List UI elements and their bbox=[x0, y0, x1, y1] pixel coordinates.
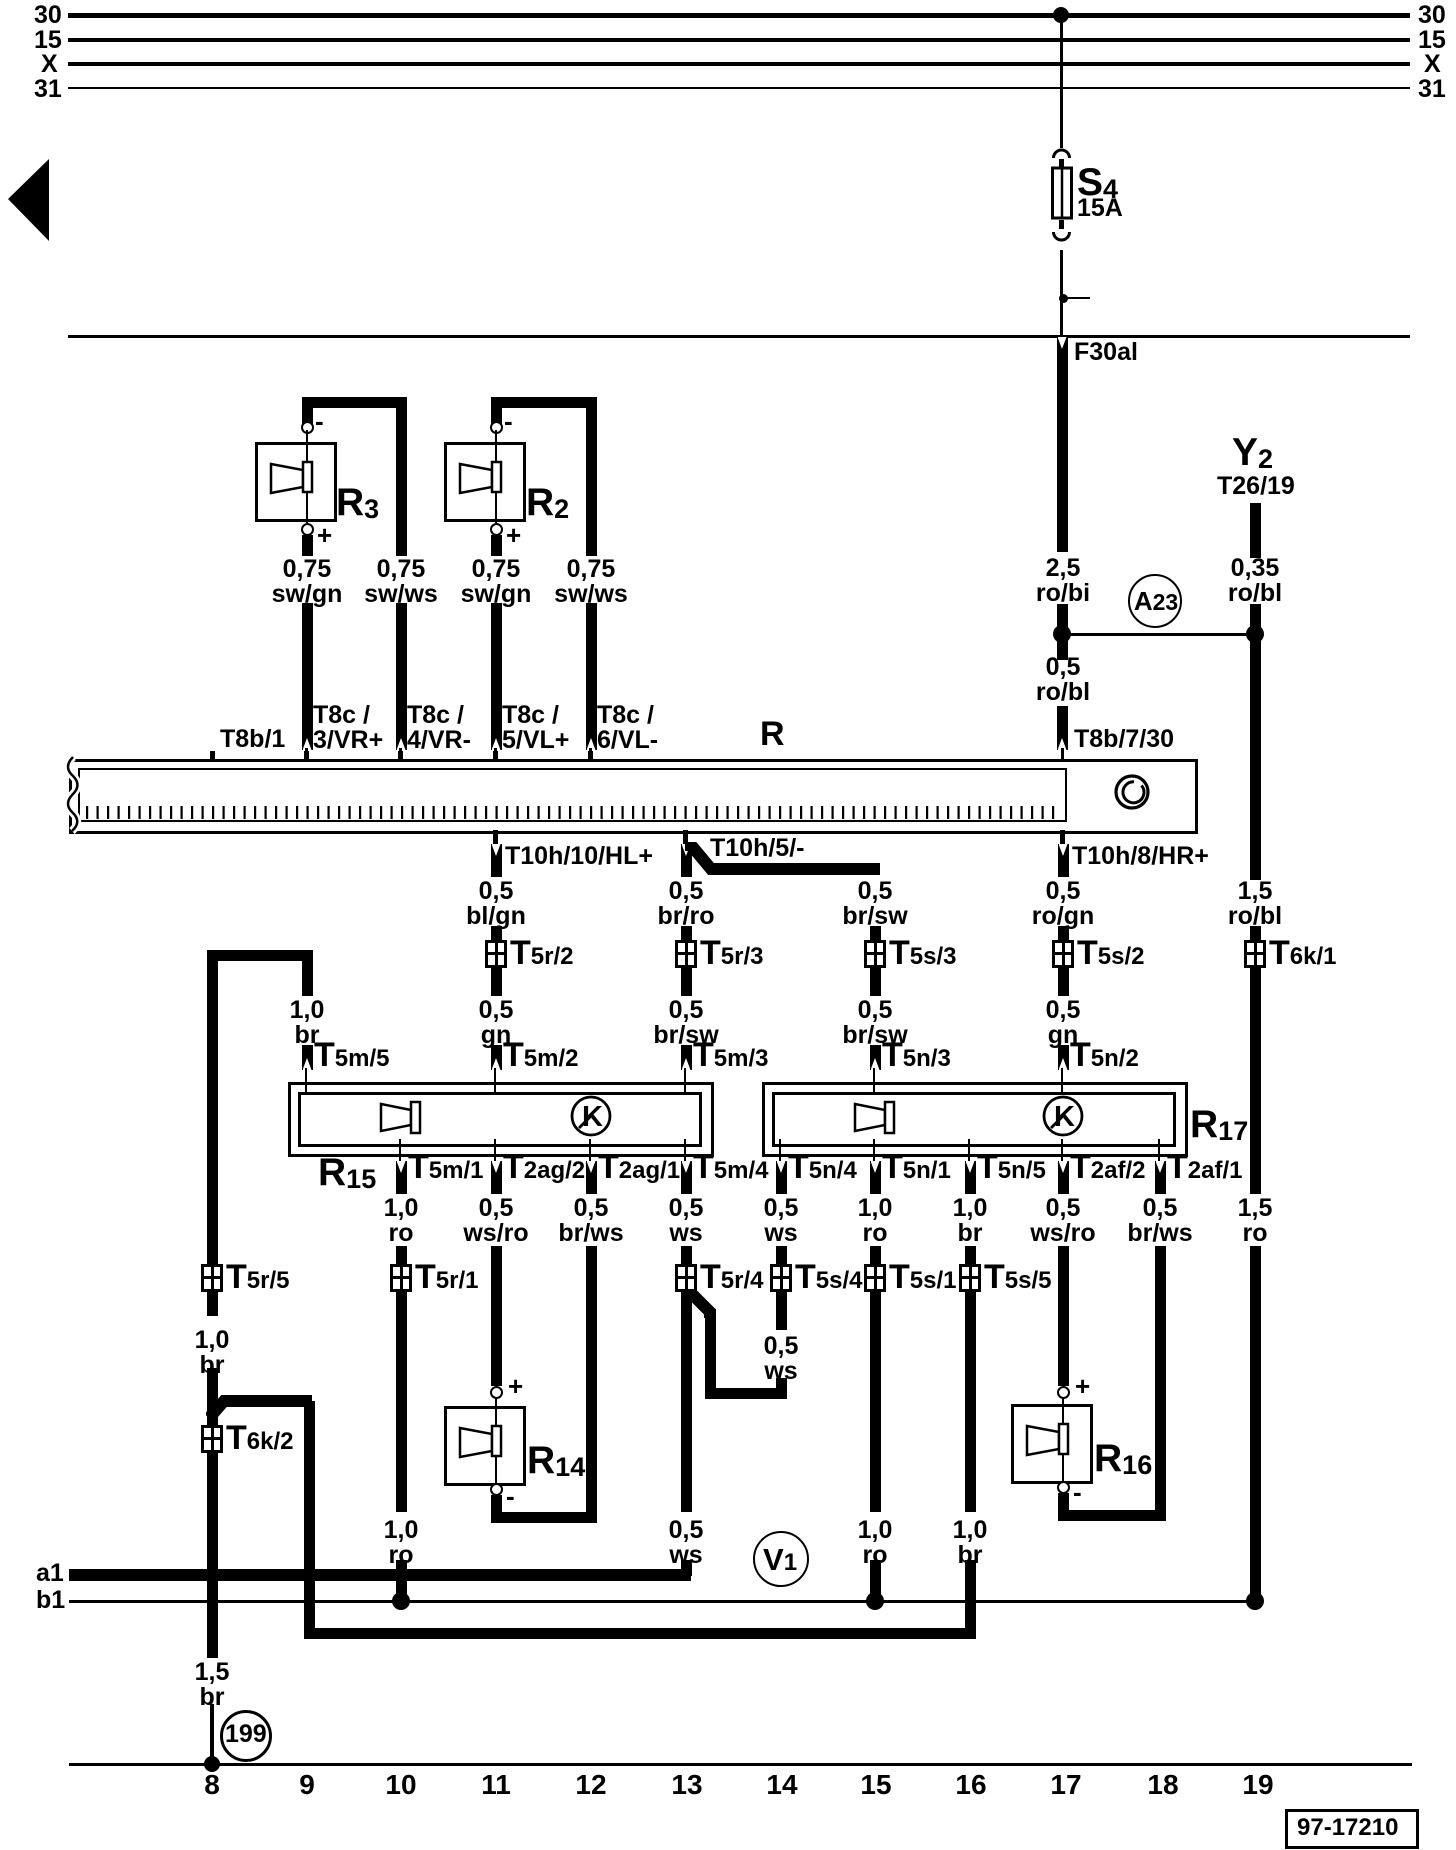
wire R3- to radio bbox=[396, 603, 407, 750]
label 0,5 gn col17 bbox=[1046, 998, 1081, 1048]
node V1 bbox=[753, 1531, 809, 1587]
label 0,5 ws/ro col17 bbox=[1030, 1196, 1095, 1246]
R15 speaker symbol bbox=[379, 1099, 424, 1135]
label R15 bbox=[318, 1156, 376, 1196]
wire into R15 T5m/5 bbox=[302, 1045, 313, 1070]
label 0,75 sw/ws (R2) bbox=[554, 557, 628, 607]
label 2,5 ro/bi bbox=[1036, 556, 1090, 606]
wire R2 plus stub bbox=[491, 535, 502, 556]
wire into R15 T5m/2 col11 bbox=[491, 1045, 502, 1070]
wire ws/ro to R14 bbox=[491, 1246, 502, 1386]
wire col13 stub to a1 bbox=[681, 1560, 692, 1576]
wire below T5r/3 bbox=[681, 968, 692, 996]
label Y2 bbox=[1232, 436, 1273, 476]
radio pin T10h/10/HL+ bbox=[493, 830, 498, 844]
wire fuse to line F30 bbox=[1060, 250, 1063, 336]
wire col15 to b1 bbox=[870, 1292, 881, 1512]
wire into T5r/5 bbox=[207, 1246, 218, 1264]
connector T5s/2 col17 bbox=[1052, 940, 1074, 968]
wire ws/ro to R16 bbox=[1058, 1246, 1069, 1386]
label 0,5 br/ws col12 bbox=[558, 1196, 623, 1246]
wire branch diagonal to col15 bbox=[680, 842, 890, 882]
wire into T5r/3 bbox=[681, 926, 692, 940]
label 1,0 ro col15b bbox=[858, 1518, 893, 1568]
label 0,5 ws col14 bbox=[764, 1196, 799, 1246]
label 1,0 br col16b bbox=[953, 1518, 988, 1568]
wire R3+ to radio bbox=[302, 603, 313, 750]
label 0,35 ro/bl bbox=[1228, 556, 1282, 606]
connector T6k/2 bbox=[201, 1425, 223, 1453]
wire below T5s/4 bbox=[776, 1292, 787, 1330]
wire into T6k/1 bbox=[1250, 926, 1261, 940]
connector T6k/1 bbox=[1244, 940, 1266, 968]
bus line X bbox=[68, 62, 1410, 66]
amplifier R17 outer box bbox=[762, 1082, 1188, 1157]
speaker R2 bbox=[444, 442, 526, 522]
wire R14 minus hook bbox=[491, 1495, 502, 1522]
wire 1,5 ro to b1 bbox=[1250, 1246, 1261, 1601]
bus b1 bbox=[69, 1600, 1255, 1603]
wire col8 above T5r/5 bbox=[207, 1240, 218, 1264]
label 1,0 ro col10 bbox=[384, 1196, 419, 1246]
wire br/ws from T2ag/1 bbox=[586, 1246, 597, 1517]
wire col13 to a1 bbox=[681, 1292, 692, 1512]
wire R3 plus stub bbox=[302, 535, 313, 556]
diagram number 97-17210 bbox=[1285, 1809, 1419, 1849]
wire into T5s/4 bbox=[776, 1246, 787, 1264]
wire below T5r/2 col11 bbox=[491, 968, 502, 996]
R16 minus terminal bbox=[1057, 1481, 1070, 1494]
label 0,5 ro/gn col17 bbox=[1032, 879, 1095, 929]
wire T10h/5/- stub col13 bbox=[681, 844, 692, 877]
label 1,5 ro/bl bbox=[1228, 879, 1282, 929]
wire below T5s/2 col17 bbox=[1058, 968, 1069, 996]
connector T5s/3 bbox=[864, 940, 886, 968]
wire col8 down to T5r/5 bbox=[207, 955, 218, 1264]
wire br/ws from T2af/1 bbox=[1155, 1246, 1166, 1515]
bottom line bbox=[69, 1763, 1412, 1766]
direction arrow bbox=[0, 150, 60, 250]
wire into T5r/1 bbox=[396, 1246, 407, 1264]
ground 199 bbox=[220, 1710, 272, 1762]
wire into T5s/1 bbox=[870, 1246, 881, 1264]
radio pin T8c/3/VR+ bbox=[304, 751, 309, 762]
bus line 30 bbox=[68, 13, 1410, 18]
R15 amplifier K symbol bbox=[569, 1095, 613, 1139]
connector T5s/1 bbox=[864, 1264, 886, 1292]
label 0,5 br/ro col13 bbox=[658, 879, 715, 929]
ground wire horizontal bbox=[304, 1628, 976, 1639]
connector T5s/4 bbox=[770, 1264, 792, 1292]
label 0,5 ws col14b bbox=[764, 1334, 799, 1384]
R17 pin T5n/3 bbox=[873, 1072, 876, 1094]
wire bus 30 to fuse S4 bbox=[1060, 15, 1063, 148]
label 1,0 ro col10b bbox=[384, 1518, 419, 1568]
speaker R14 bbox=[444, 1406, 526, 1486]
R15 pin T2ag/2 bbox=[494, 1139, 497, 1161]
wire into R15 T5m/3 bbox=[681, 1045, 692, 1070]
label R17 bbox=[1190, 1108, 1248, 1148]
svg-text:K: K bbox=[1054, 1101, 1075, 1133]
R15 pin T2ag/1 bbox=[589, 1139, 592, 1161]
wire 0,5 below radio at col col11 bbox=[491, 844, 502, 877]
line F30 bbox=[68, 335, 1410, 338]
ground loop wire col8/col9 bbox=[207, 950, 313, 961]
radio R label bbox=[760, 722, 785, 747]
wire below T5r/5 bbox=[207, 1292, 218, 1316]
amplifier R17 inner box bbox=[772, 1092, 1176, 1147]
label 1,0 br col16 bbox=[953, 1196, 988, 1246]
radio R antenna symbol bbox=[1112, 772, 1154, 814]
node tap at fuse output bbox=[1059, 294, 1068, 303]
fuse S4 bbox=[1045, 144, 1105, 250]
bus line 15 bbox=[68, 38, 1410, 42]
label 0,5 ro/bl bbox=[1036, 655, 1090, 705]
speaker R3 bbox=[255, 442, 337, 522]
label 0,5 br/ws col18 bbox=[1127, 1196, 1192, 1246]
label 0,5 ws/ro col11 bbox=[463, 1196, 528, 1246]
wire below T5s/3 bbox=[870, 968, 881, 996]
radio pin T8c/4/VR- bbox=[398, 751, 403, 762]
label 0,5 ws col13 bbox=[669, 1196, 704, 1246]
wire col16 down bbox=[965, 1292, 976, 1512]
wire below T6k/2 bbox=[207, 1453, 218, 1658]
speaker R3 minus terminal bbox=[301, 421, 314, 434]
bus a1 bbox=[69, 1569, 691, 1581]
amplifier R15 inner box bbox=[298, 1092, 702, 1147]
node Y2 link bbox=[1246, 625, 1264, 643]
speaker R2 minus terminal bbox=[490, 421, 503, 434]
R14 minus terminal bbox=[490, 1483, 503, 1496]
wire col8 to T6k/2 bbox=[207, 1368, 218, 1425]
wire R2+ to radio bbox=[491, 603, 502, 750]
label 0,5 ws col13b bbox=[669, 1518, 704, 1568]
wire into T5r/2 col11 bbox=[491, 926, 502, 940]
speaker R16 bbox=[1011, 1404, 1093, 1484]
R17 pin T5n/5 bbox=[968, 1139, 971, 1161]
speaker R3 loop wire bbox=[302, 397, 407, 408]
label F30al bbox=[1074, 340, 1138, 365]
wire R16 minus hook bbox=[1058, 1493, 1069, 1521]
wire col14 elbow to col13 bbox=[776, 1378, 787, 1399]
wire T6k/1 down bbox=[1250, 968, 1261, 1194]
pin T8b/7/30 bbox=[1061, 748, 1064, 762]
R15 pin T5m/3 bbox=[684, 1072, 687, 1094]
radio R break edge bbox=[60, 755, 86, 835]
wire 0,5 below radio at col col17 bbox=[1058, 844, 1069, 877]
label 0,75 sw/gn (R3) bbox=[272, 557, 343, 607]
R17 pin T5n/2 bbox=[1061, 1072, 1064, 1094]
node on b1 col10 bbox=[392, 1592, 410, 1610]
label 0,5 br/sw col15b bbox=[842, 998, 907, 1048]
ground node bbox=[204, 1756, 220, 1772]
node radio feed bbox=[1053, 625, 1071, 643]
wire R2- to radio bbox=[586, 603, 597, 750]
wire into R17 T5n/3 bbox=[870, 1045, 881, 1070]
connector T5r/2 col11 bbox=[485, 940, 507, 968]
wire into T5s/2 col17 bbox=[1058, 926, 1069, 940]
node on b1 col19 bbox=[1246, 1592, 1264, 1610]
wire F30al 2,5 ro/bi bbox=[1057, 337, 1068, 552]
R16 plus terminal bbox=[1057, 1386, 1070, 1399]
R17 speaker symbol bbox=[853, 1099, 898, 1135]
connector T5r/4 bbox=[675, 1264, 697, 1292]
label 1,0 ro col15 bbox=[858, 1196, 893, 1246]
wire Y2 0,35 ro/bl stub bbox=[1250, 503, 1261, 558]
wire Y2 to node bbox=[1250, 604, 1261, 880]
label 0,5 br/sw col13 bbox=[653, 998, 718, 1048]
track numbers 8-19 bbox=[204, 1772, 220, 1797]
ecm A23 circle bbox=[1128, 574, 1182, 628]
label 1,0 br col8 bbox=[195, 1328, 230, 1378]
connector T5r/3 bbox=[675, 940, 697, 968]
label 15A bbox=[1077, 196, 1123, 221]
node on bus 30 bbox=[1053, 7, 1069, 23]
speaker R3 plus terminal bbox=[301, 523, 314, 536]
R15 pin T5m/4 bbox=[684, 1139, 687, 1161]
radio R inner box bbox=[78, 768, 1067, 822]
label 0,5 br/sw col15 bbox=[842, 879, 907, 929]
label 0,5 gn col11 bbox=[479, 998, 514, 1048]
label 0,75 sw/ws (R3) bbox=[364, 557, 438, 607]
speaker R2 loop wire bbox=[491, 397, 597, 408]
radio pin T8c/5/VL+ bbox=[493, 751, 498, 762]
label 1,5 ro bbox=[1238, 1196, 1273, 1246]
branch diagonal col8 bbox=[206, 1390, 326, 1430]
R15 pin T5m/5 bbox=[305, 1072, 308, 1094]
label 1,5 br bbox=[195, 1660, 230, 1710]
radio R scale hatching bbox=[80, 806, 1063, 820]
bus line 31 bbox=[68, 87, 1410, 90]
R17 pin T5n/4 bbox=[779, 1139, 782, 1161]
wire col10 to b1 bbox=[396, 1292, 407, 1512]
svg-text:K: K bbox=[582, 1101, 603, 1133]
ground wire vertical bbox=[304, 1401, 315, 1639]
label 0,5 bl/gn col11 bbox=[466, 879, 526, 929]
R17 pin T2af/2 bbox=[1061, 1139, 1064, 1161]
label S4 bbox=[1077, 166, 1118, 206]
wire segment to node A23 bbox=[1057, 604, 1068, 660]
wire into T5r/4 bbox=[681, 1246, 692, 1264]
wire link to Y2 node bbox=[1063, 633, 1255, 636]
radio pin T10h/8/HR+ bbox=[1060, 830, 1065, 844]
R15 pin T5m/1 bbox=[399, 1139, 402, 1161]
R17 pin T5n/1 bbox=[873, 1139, 876, 1161]
connector T5r/1 bbox=[390, 1264, 412, 1292]
wire into T5s/3 bbox=[870, 926, 881, 940]
speaker R2 plus terminal bbox=[490, 523, 503, 536]
connector T5s/5 bbox=[959, 1264, 981, 1292]
radio pin T8c/6/VL- bbox=[588, 751, 593, 762]
R14 plus terminal bbox=[490, 1386, 503, 1399]
wire into R17 T5n/2 col17 bbox=[1058, 1045, 1069, 1070]
wire to ground node bbox=[210, 1704, 214, 1765]
radio pin T8b/1 bbox=[210, 751, 215, 762]
R17 amplifier K symbol bbox=[1041, 1095, 1085, 1139]
wire into T5s/5 bbox=[965, 1246, 976, 1264]
wire into radio pin T8b/7/30 bbox=[1057, 706, 1068, 750]
label 0,75 sw/gn (R2) bbox=[461, 557, 532, 607]
node on b1 col15 bbox=[866, 1592, 884, 1610]
radio pin T10h/5/- bbox=[683, 830, 688, 844]
label 1,0 br col9 bbox=[290, 998, 325, 1048]
label T26/19 bbox=[1217, 474, 1295, 499]
amplifier R15 outer box bbox=[288, 1082, 714, 1157]
R17 pin T2af/1 bbox=[1158, 1139, 1161, 1161]
connector T5r/5 bbox=[201, 1264, 223, 1292]
R15 pin T5m/2 bbox=[494, 1072, 497, 1094]
radio R outer box bbox=[69, 759, 1198, 834]
